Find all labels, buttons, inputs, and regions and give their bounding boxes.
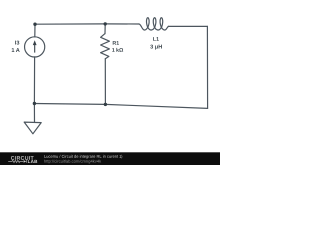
wire current source top lead (34, 24, 36, 37)
footer logo LAB (28, 160, 37, 163)
ground stub wire (33, 104, 35, 123)
node dot bottom-left (33, 102, 36, 105)
label 3 uH (150, 45, 162, 50)
ground symbol triangle (24, 122, 41, 134)
wire current source bottom lead (33, 57, 35, 104)
wire right branch (206, 26, 208, 108)
label 1 A (12, 48, 20, 52)
node dot bottom resistor (104, 103, 107, 106)
node dot top resistor (104, 22, 107, 25)
footer bar (0, 152, 220, 165)
footer logo resistor zigzag (8, 160, 23, 162)
inductor L1 coil (139, 18, 169, 30)
footer caption line 2 (44, 160, 101, 164)
wire top right segment (168, 25, 207, 27)
resistor R1 zigzag (101, 34, 110, 59)
wire top left segment (35, 23, 139, 25)
label I3 (15, 41, 19, 45)
footer logo diode arrow (24, 160, 27, 163)
current source arrow (33, 40, 37, 52)
label 1 kOhm (112, 48, 123, 52)
wire resistor top lead (104, 24, 106, 34)
footer logo diode bar (25, 160, 28, 163)
footer caption line 1 (44, 155, 122, 159)
current source I3 circle (25, 37, 45, 57)
wire resistor bottom lead (104, 59, 106, 105)
node dot top-left (33, 23, 36, 26)
wire bottom (34, 104, 207, 109)
label R1 (113, 41, 119, 45)
footer logo CIRCUIT (11, 156, 34, 160)
label L1 (153, 37, 159, 41)
